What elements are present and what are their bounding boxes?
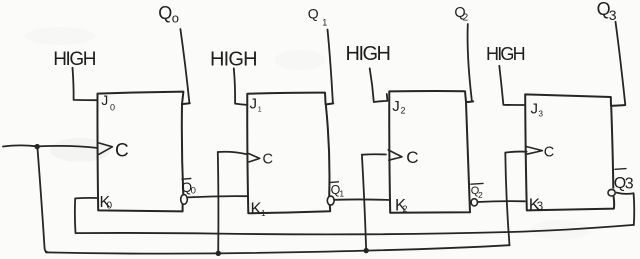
wire: Q3 output bbox=[616, 22, 626, 105]
flip-flop U1 box bbox=[97, 92, 189, 212]
U4 Qbar bubble bbox=[608, 189, 615, 196]
svg-text:HIGH: HIGH bbox=[346, 43, 390, 65]
net label Q3 bbox=[597, 0, 617, 23]
pin label J3 bbox=[531, 101, 544, 119]
wire: HIGH to J0 bbox=[73, 68, 98, 100]
svg-text:2: 2 bbox=[401, 106, 406, 116]
wire: HIGH to J2 bbox=[370, 68, 388, 102]
svg-text:0: 0 bbox=[110, 103, 115, 113]
svg-text:J: J bbox=[531, 101, 539, 118]
pin label C of U2 bbox=[263, 152, 273, 168]
svg-text:C: C bbox=[263, 152, 273, 168]
pin label C of U3 bbox=[406, 148, 418, 167]
svg-text:1: 1 bbox=[261, 209, 266, 218]
wire: clock to FF1 C input bbox=[37, 146, 97, 148]
flip-flop U2 box bbox=[247, 93, 333, 214]
wire: bottom clock bus segment 2 bbox=[218, 251, 366, 254]
wire: clock input from left edge bbox=[3, 145, 37, 146]
svg-text:C: C bbox=[406, 148, 418, 167]
wire: FF4 clock horizontal into C bbox=[505, 152, 526, 153]
svg-text:1: 1 bbox=[322, 18, 327, 28]
flip-flop U4 box bbox=[525, 94, 625, 210]
svg-text:1: 1 bbox=[339, 188, 344, 198]
pin label K1 bbox=[251, 200, 267, 218]
wire: Q1 output bbox=[328, 30, 333, 104]
svg-text:o: o bbox=[172, 10, 179, 25]
wire: Qbar0 to K1 bbox=[187, 196, 247, 197]
wire: Q2 output bbox=[468, 24, 472, 101]
svg-text:Q: Q bbox=[158, 3, 172, 23]
power label HIGH for J3 bbox=[486, 44, 525, 64]
U2 clock wedge bbox=[249, 154, 260, 162]
svg-text:HIGH: HIGH bbox=[486, 44, 525, 64]
svg-text:HIGH: HIGH bbox=[53, 49, 96, 70]
wire: FF4 clock riser bbox=[505, 153, 509, 246]
pin label K2 bbox=[395, 197, 408, 215]
svg-text:3: 3 bbox=[625, 175, 634, 192]
net label Q1 bbox=[308, 6, 328, 28]
wire: bottom clock bus segment 3 to FF4 riser bbox=[366, 245, 509, 250]
svg-text:3: 3 bbox=[539, 110, 544, 119]
svg-text:Q: Q bbox=[308, 6, 319, 22]
svg-text:3: 3 bbox=[609, 7, 617, 23]
net label Qbar3 bbox=[614, 169, 634, 193]
flip-flop U3 box bbox=[389, 91, 473, 213]
svg-text:C: C bbox=[115, 141, 129, 162]
pin label C of U4 bbox=[544, 144, 554, 160]
net label Q0 bbox=[158, 3, 179, 25]
node: clock junction dot bbox=[35, 144, 40, 149]
svg-text:K: K bbox=[251, 200, 262, 218]
pin label K0 bbox=[100, 194, 113, 212]
node: bus junction dot at FF2 drop bbox=[216, 251, 221, 256]
pin label C of U1 bbox=[115, 141, 129, 162]
wire: FF3 clock riser bbox=[362, 155, 366, 251]
wire: HIGH to J1 bbox=[234, 68, 248, 105]
wire: clock drop from junction to bottom bus bbox=[37, 147, 48, 252]
net label Qbar0 bbox=[181, 179, 196, 197]
svg-text:C: C bbox=[544, 144, 554, 160]
svg-text:HIGH: HIGH bbox=[210, 49, 257, 71]
svg-text:1: 1 bbox=[258, 107, 262, 114]
U1 Qbar bubble bbox=[181, 195, 188, 205]
pin label J0 bbox=[101, 92, 115, 113]
svg-text:J: J bbox=[392, 98, 400, 115]
svg-text:0: 0 bbox=[191, 186, 196, 197]
power label HIGH for J1 bbox=[210, 49, 257, 71]
wire: Qbar2 to K3 bbox=[477, 200, 524, 203]
wire: bottom clock bus segment 1 bbox=[46, 252, 218, 253]
pin label K3 bbox=[529, 195, 543, 214]
pin label J1 bbox=[250, 95, 262, 113]
U3 Qbar bubble bbox=[471, 199, 477, 206]
svg-text:3: 3 bbox=[537, 201, 543, 213]
power label HIGH for J0 bbox=[53, 49, 96, 70]
svg-text:2: 2 bbox=[463, 12, 469, 23]
node: bus junction dot at FF3 drop bbox=[364, 248, 369, 253]
U2 Qbar bubble bbox=[327, 196, 334, 205]
U1 clock wedge bbox=[99, 143, 113, 154]
svg-text:2: 2 bbox=[403, 204, 408, 214]
wire: Qbar3 feedback long bottom run to K0 bbox=[75, 198, 634, 234]
wire: Qbar1 to K2 bbox=[334, 198, 390, 201]
wire: FF2 clock riser bbox=[217, 152, 220, 253]
svg-text:2: 2 bbox=[478, 190, 483, 200]
U4 clock wedge bbox=[526, 147, 542, 155]
wire: Qbar3 feedback right and down bbox=[617, 193, 635, 225]
svg-text:J: J bbox=[101, 92, 108, 108]
net label Qbar1 bbox=[331, 182, 345, 199]
wire: FF2 clock horizontal into C bbox=[218, 152, 247, 155]
power label HIGH for J2 bbox=[346, 43, 390, 65]
pin label J2 bbox=[392, 98, 405, 116]
net label Q2 bbox=[454, 5, 468, 23]
net label Qbar2 bbox=[471, 183, 483, 200]
wire: Q0 output bbox=[180, 29, 189, 103]
svg-text:0: 0 bbox=[107, 201, 113, 212]
wire: HIGH to J3 bbox=[499, 66, 524, 105]
svg-text:J: J bbox=[250, 95, 258, 112]
U3 clock wedge bbox=[388, 150, 402, 160]
wire: FF3 clock horizontal into C bbox=[362, 153, 386, 155]
